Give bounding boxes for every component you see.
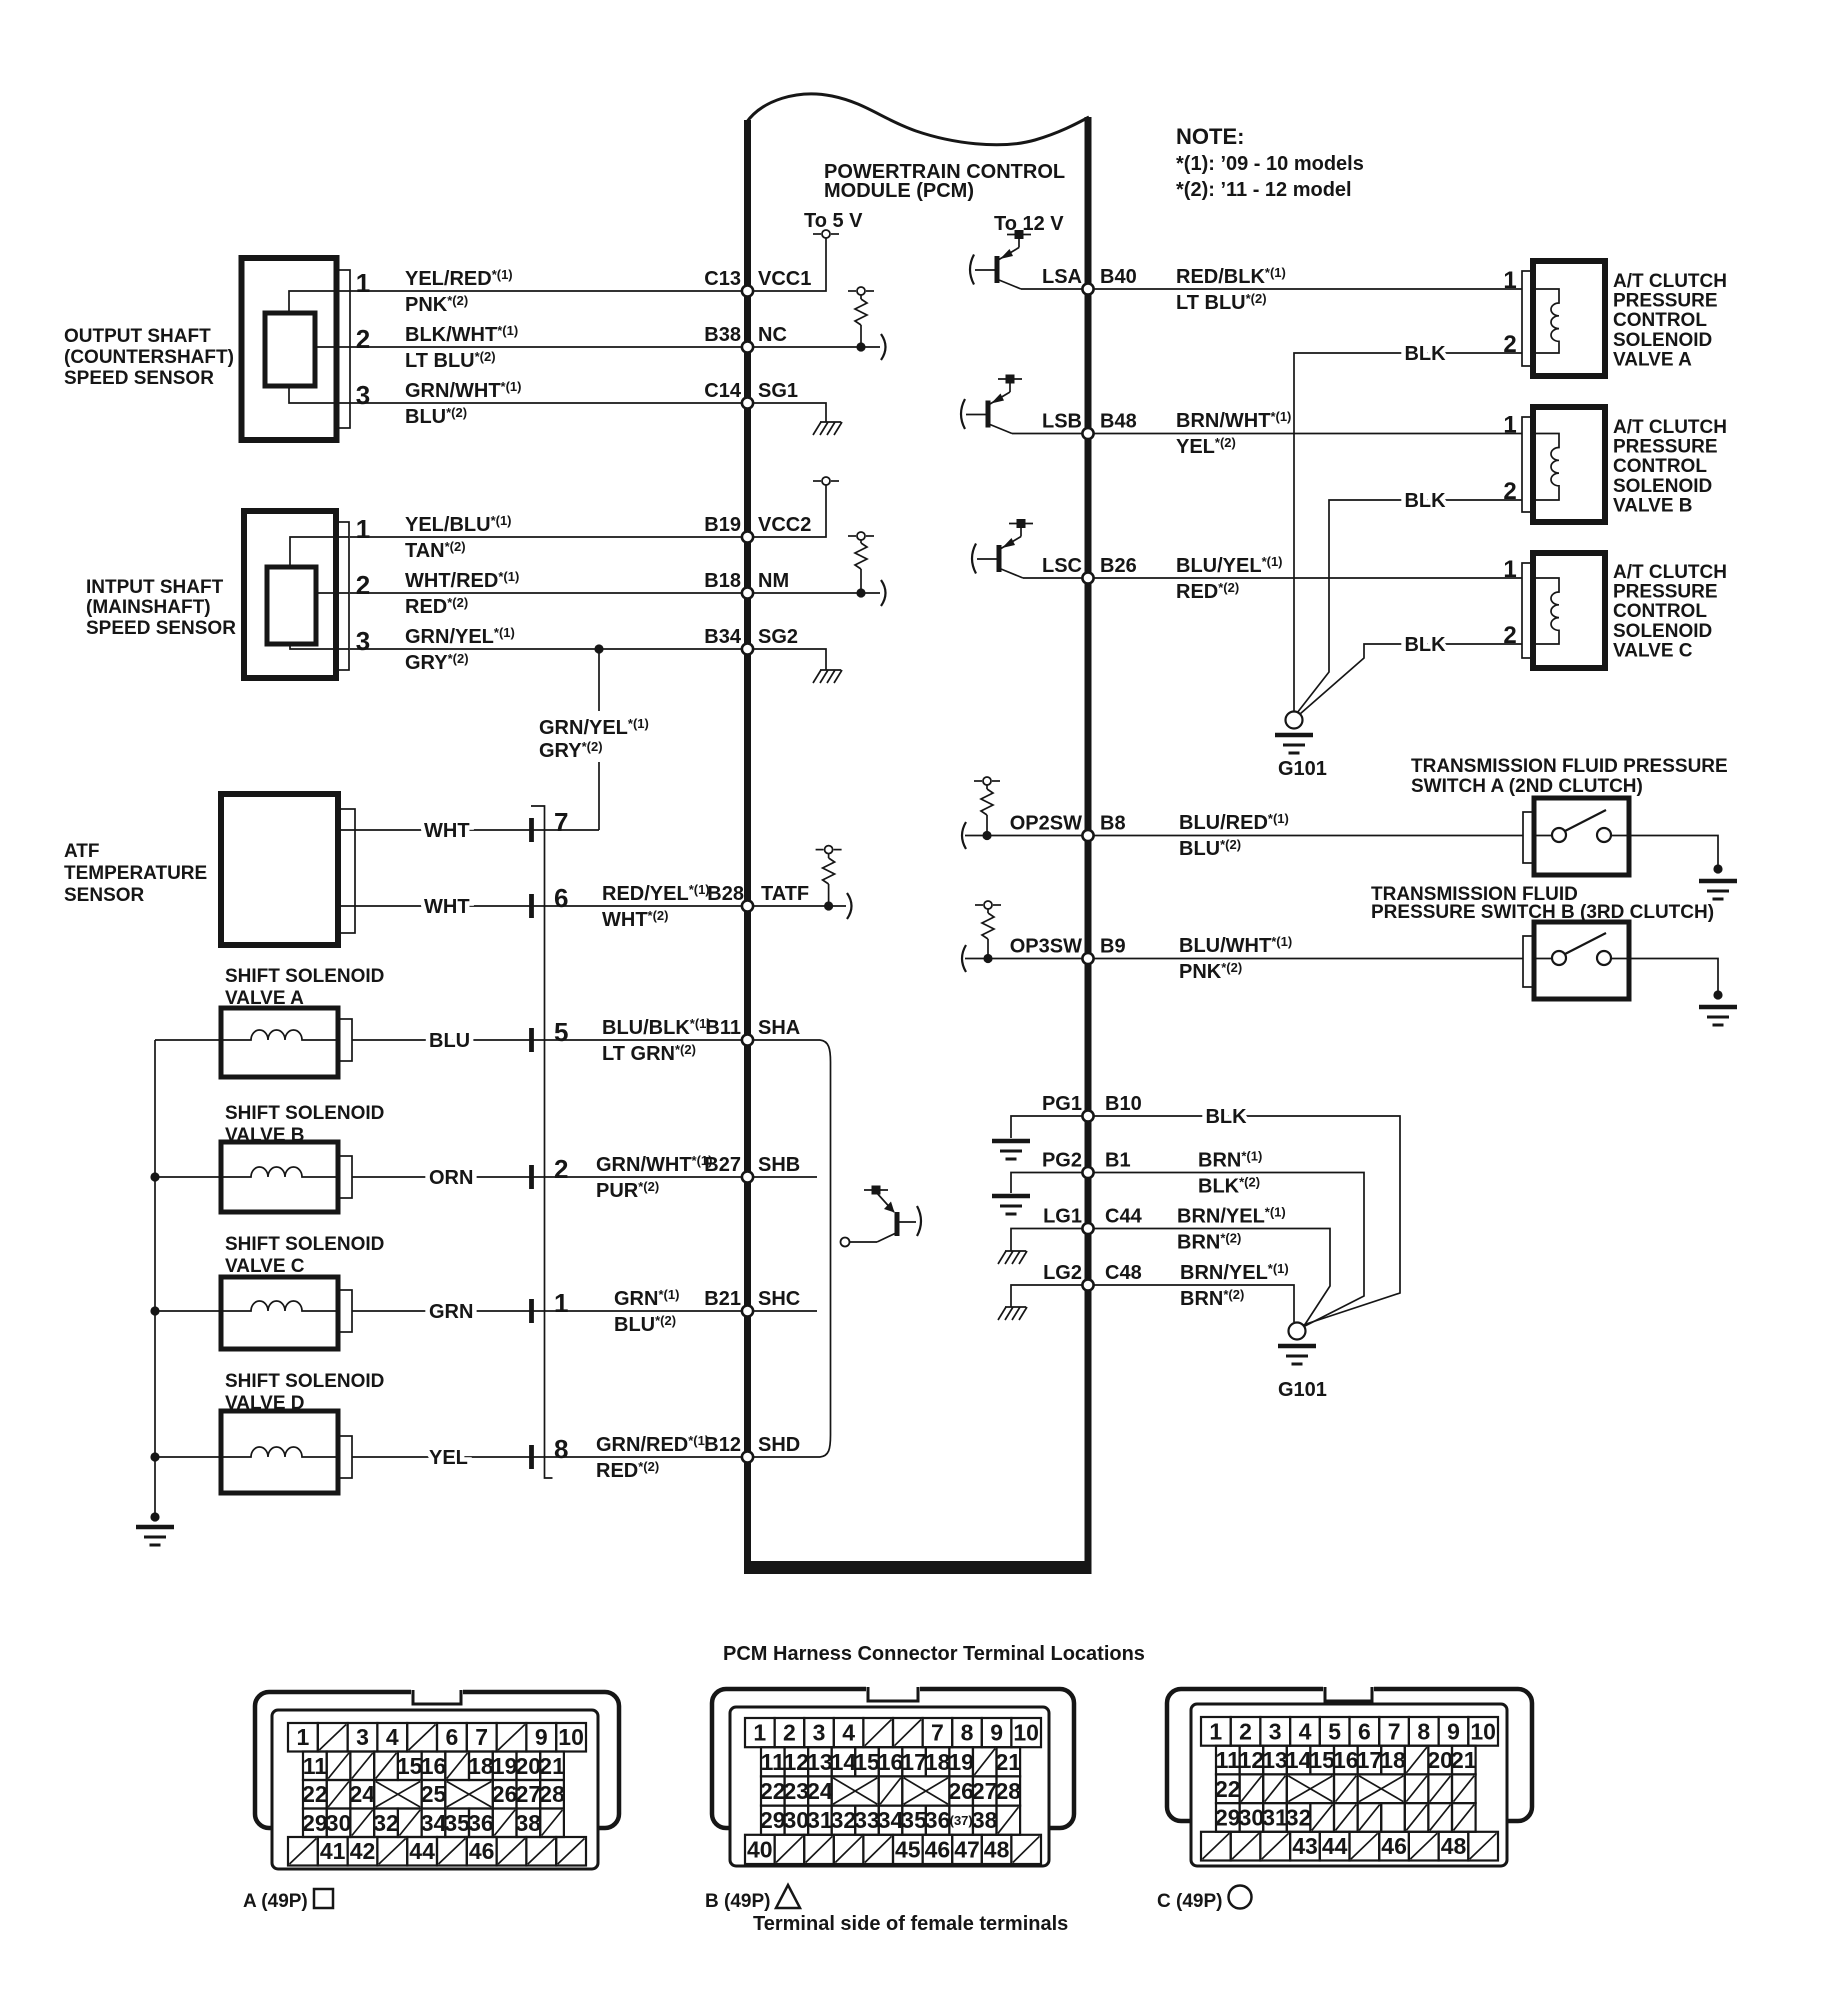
A (49P) cell 44 [407, 1837, 437, 1866]
svg-text:15: 15 [854, 1749, 880, 1775]
terminal B9 [1082, 953, 1093, 964]
A (49P) cell hatch [445, 1752, 469, 1781]
transistor LSA [970, 230, 1031, 289]
A (49P) cell 3 [348, 1723, 378, 1752]
wire valve D common side [155, 1456, 221, 1458]
C (49P) cell 15 [1309, 1746, 1335, 1775]
svg-text:43: 43 [1292, 1833, 1318, 1859]
svg-text:YEL: YEL [429, 1447, 468, 1469]
OP3SW pull-up resistor [975, 901, 1001, 909]
svg-text:SOLENOID: SOLENOID [1613, 330, 1712, 351]
C (49P) cell hatch [1260, 1832, 1290, 1861]
A (49P) cell hatch [540, 1809, 564, 1838]
svg-text:40: 40 [747, 1836, 773, 1862]
svg-text:19: 19 [492, 1753, 518, 1779]
NC pull-up resistor [860, 295, 862, 299]
svg-text:B9: B9 [1100, 936, 1126, 958]
svg-text:1: 1 [1503, 556, 1516, 583]
A (49P) cell 15 [397, 1752, 423, 1781]
C (49P) cell 3 [1260, 1717, 1290, 1746]
svg-text:2: 2 [356, 570, 370, 600]
VCC2 power tap symbol [813, 477, 839, 485]
svg-text:SPEED SENSOR: SPEED SENSOR [86, 618, 236, 639]
B (49P) cell hatch [1011, 1835, 1041, 1864]
C (49P) cell 17 [1357, 1746, 1383, 1775]
terminal tick pin 8 [529, 1445, 534, 1469]
TATF junction [824, 901, 833, 910]
svg-text:2: 2 [1503, 478, 1516, 505]
C (49P) cell 9 [1439, 1717, 1469, 1746]
terminal B38 [742, 341, 753, 352]
A (49P) cell 32 [373, 1809, 399, 1838]
svg-text:47: 47 [954, 1836, 980, 1862]
svg-text:20: 20 [516, 1753, 542, 1779]
svg-text:26: 26 [492, 1781, 518, 1807]
shift solenoid valve C body [221, 1277, 352, 1349]
B (49P) cell 16 [878, 1747, 904, 1776]
svg-text:14: 14 [831, 1749, 857, 1775]
C (49P) cell 5 [1320, 1717, 1350, 1746]
svg-text:13: 13 [1262, 1747, 1288, 1773]
SHA-SHD grouping bracket [820, 1040, 831, 1457]
input shaft (mainshaft) speed sensor label [86, 577, 236, 639]
C (49P) cell 22 [1215, 1774, 1241, 1803]
B (49P) cell 1 [745, 1718, 775, 1747]
A (49P) cell 22 [302, 1780, 328, 1809]
wire valve C common side [155, 1310, 221, 1312]
terminal B10 [1082, 1110, 1093, 1121]
B (49P) cell 48 [982, 1835, 1012, 1864]
wire B38 row [350, 346, 747, 348]
NM junction [856, 588, 865, 597]
svg-text:VALVE B: VALVE B [1613, 495, 1693, 516]
LSA emitter wire [1021, 288, 1088, 290]
svg-text:VALVE A: VALVE A [1613, 349, 1692, 370]
SHB internal wire [751, 1176, 817, 1178]
ground G101 upper [1275, 712, 1313, 754]
A (49P) cell 24 [350, 1780, 376, 1809]
svg-text:MODULE (PCM): MODULE (PCM) [824, 180, 974, 202]
svg-text:2: 2 [554, 1154, 568, 1184]
SG1 internal wire to ground [751, 403, 826, 422]
svg-text:29: 29 [1215, 1804, 1241, 1830]
OP2SW junction [982, 831, 991, 840]
A (49P) cell hatch [437, 1837, 467, 1866]
svg-text:16: 16 [1333, 1747, 1359, 1773]
svg-text:SHA: SHA [758, 1017, 800, 1039]
B (49P) cell 34 [878, 1806, 904, 1835]
C (49P) cell hatch [1358, 1803, 1382, 1832]
terminal tick pin6 [529, 894, 534, 918]
svg-text:3: 3 [356, 626, 370, 656]
svg-text:1: 1 [356, 268, 370, 298]
svg-text:30: 30 [784, 1807, 810, 1833]
svg-text:17: 17 [1357, 1747, 1383, 1773]
A (49P) cell hatch [407, 1723, 437, 1752]
svg-text:7: 7 [1388, 1718, 1401, 1744]
C (49P) cell 4 [1290, 1717, 1320, 1746]
TATF pull-up resistor [828, 854, 830, 858]
svg-text:PRESSURE: PRESSURE [1613, 437, 1718, 458]
svg-text:9: 9 [990, 1720, 1003, 1746]
switch A ground wire [1629, 836, 1718, 867]
terminal B12 [742, 1451, 753, 1462]
wire ATF pin7 (WHT) [338, 829, 599, 831]
wire valve C to connector [352, 1310, 747, 1312]
svg-text:9: 9 [1447, 1718, 1460, 1744]
OP2SW pull-up resistor [974, 777, 1000, 785]
connector strip line [531, 806, 553, 1478]
PG2 ground [992, 1196, 1030, 1214]
svg-text:GRN: GRN [429, 1301, 473, 1323]
svg-text:OUTPUT SHAFT: OUTPUT SHAFT [64, 326, 211, 347]
B (49P) cell 28 [996, 1776, 1022, 1805]
wire B48 to valve B pin1 (BRN/WHT) [1094, 433, 1522, 435]
A (49P) cell hatch [327, 1752, 351, 1781]
C (49P) cell 20 [1427, 1746, 1453, 1775]
svg-text:VALVE C: VALVE C [1613, 640, 1693, 661]
B (49P) cell hatch [973, 1747, 997, 1776]
transistor LSC [972, 519, 1033, 578]
svg-text:18: 18 [1380, 1747, 1406, 1773]
solenoid common bus wire [154, 1040, 156, 1517]
B (49P) cell 46 [923, 1835, 953, 1864]
C (49P) cell hatch [1405, 1774, 1429, 1803]
terminal tick pin 2 [529, 1165, 534, 1189]
wire B18 row [350, 592, 747, 594]
svg-text:3: 3 [356, 1724, 369, 1750]
solenoid coil C [221, 1301, 338, 1311]
svg-text:3: 3 [356, 380, 370, 410]
svg-text:31: 31 [807, 1807, 833, 1833]
svg-text:TATF: TATF [761, 883, 809, 905]
PCM bottom edge [744, 1561, 1092, 1574]
B (49P) cell 4 [834, 1718, 864, 1747]
LG2 ground [998, 1307, 1027, 1320]
svg-text:18: 18 [925, 1749, 951, 1775]
svg-text:B (49P): B (49P) [705, 1891, 770, 1912]
svg-text:SHC: SHC [758, 1288, 800, 1310]
terminal C14 [742, 397, 753, 408]
sensor2 internal wire pin 3 [290, 644, 349, 649]
A (49P) cell hatch [374, 1752, 398, 1781]
svg-text:B34: B34 [704, 626, 742, 648]
C (49P) cell 31 [1262, 1803, 1288, 1832]
C (49P) cell hatch [1428, 1803, 1452, 1832]
svg-text:B10: B10 [1105, 1093, 1142, 1115]
A (49P) cell hatch [288, 1837, 318, 1866]
svg-text:LG2: LG2 [1043, 1262, 1082, 1284]
input shaft speed sensor body [244, 511, 349, 678]
svg-text:SHIFT SOLENOID: SHIFT SOLENOID [225, 1234, 384, 1255]
LG2 internal wire to ground [1011, 1285, 1085, 1307]
switch A ground junction [1713, 864, 1722, 873]
switch B title [1371, 884, 1714, 923]
NC junction [856, 342, 865, 351]
svg-text:36: 36 [468, 1810, 494, 1836]
A (49P) cell cross [445, 1780, 493, 1809]
TATF internal wire [751, 905, 846, 907]
svg-text:B48: B48 [1100, 411, 1137, 433]
B (49P) cell 13 [807, 1747, 833, 1776]
svg-text:1: 1 [554, 1288, 568, 1318]
svg-text:PRESSURE: PRESSURE [1613, 291, 1718, 312]
wire B8 to switch A (BLU/RED) [1094, 835, 1523, 837]
switch A title [1411, 756, 1728, 797]
BLK wire valve C pin2 [1300, 644, 1522, 714]
svg-text:16: 16 [878, 1749, 904, 1775]
svg-text:SWITCH A (2ND CLUTCH): SWITCH A (2ND CLUTCH) [1411, 776, 1643, 797]
A (49P) cell hatch [493, 1809, 517, 1838]
C (49P) cell hatch [1350, 1832, 1380, 1861]
PCM wavy top edge [746, 94, 1089, 145]
svg-text:21: 21 [1451, 1747, 1477, 1773]
svg-text:BLK: BLK [1404, 490, 1446, 512]
svg-text:B40: B40 [1100, 266, 1137, 288]
svg-text:20: 20 [1427, 1747, 1453, 1773]
svg-text:SHIFT SOLENOID: SHIFT SOLENOID [225, 966, 384, 987]
sensor2 internal wire pin 1 [290, 537, 349, 567]
SG1 ground [813, 422, 842, 435]
A (49P) cell 36 [468, 1809, 494, 1838]
C (49P) cell cross [1358, 1774, 1405, 1803]
solenoid common ground [136, 1527, 174, 1545]
svg-text:30: 30 [326, 1810, 352, 1836]
C (49P) cell 7 [1379, 1717, 1409, 1746]
svg-text:B8: B8 [1100, 813, 1126, 835]
C (49P) cell 32 [1286, 1803, 1312, 1832]
B (49P) cell hatch [834, 1835, 864, 1864]
OP2SW continuation bracket [962, 822, 966, 849]
wire B26 to valve C pin1 (BLU/YEL) [1094, 577, 1522, 579]
svg-text:1: 1 [1209, 1718, 1222, 1744]
LSC emitter wire [1023, 577, 1088, 579]
svg-text:11: 11 [303, 1753, 328, 1779]
C (49P) cell hatch [1452, 1774, 1476, 1803]
svg-text:CONTROL: CONTROL [1613, 456, 1707, 477]
svg-text:VALVE C: VALVE C [225, 1256, 305, 1277]
svg-text:LSC: LSC [1042, 555, 1082, 577]
B (49P) cell 2 [775, 1718, 805, 1747]
svg-text:VCC1: VCC1 [758, 268, 811, 290]
terminal B8 [1082, 830, 1093, 841]
switch B contacts [1534, 933, 1629, 965]
svg-text:17: 17 [901, 1749, 927, 1775]
svg-text:21: 21 [539, 1753, 565, 1779]
sensor2 internal wire pin 2 [316, 592, 349, 594]
A (49P) cell hatch [377, 1837, 407, 1866]
shift solenoid valve B label [225, 1103, 384, 1146]
NM pull-up resistor [860, 540, 862, 543]
svg-text:PCM Harness Connector Terminal: PCM Harness Connector Terminal Locations [723, 1643, 1145, 1665]
switch B ground [1699, 1007, 1737, 1025]
C (49P) cell blank [1381, 1803, 1405, 1832]
switch B ground wire [1629, 959, 1718, 993]
A (49P) cell 21 [539, 1752, 565, 1781]
junction on SG2 wire [594, 644, 603, 653]
terminal C13 [742, 285, 753, 296]
svg-text:B26: B26 [1100, 555, 1137, 577]
A (49P) cell cross [374, 1780, 422, 1809]
A (49P) cell hatch [556, 1837, 586, 1866]
switch A ground [1699, 881, 1737, 899]
SHA internal wire [751, 1039, 820, 1041]
B (49P) cell 15 [854, 1747, 880, 1776]
wire C13 row [350, 290, 747, 292]
B (49P) cell hatch [775, 1835, 805, 1864]
svg-text:WHT: WHT [424, 820, 470, 842]
NM pull-up resistor top tap [848, 532, 874, 540]
B (49P) cell 35 [901, 1806, 927, 1835]
A (49P) cell 35 [444, 1809, 470, 1838]
svg-text:2: 2 [783, 1720, 796, 1746]
A (49P) cell 10 [556, 1723, 586, 1752]
C (49P) cell hatch [1452, 1803, 1476, 1832]
BLK wire valve B pin2 [1297, 500, 1522, 713]
svg-text:11: 11 [761, 1749, 786, 1775]
NM internal wire [751, 592, 880, 594]
C (49P) cell 11 [1216, 1746, 1241, 1775]
valve A coil [1533, 289, 1559, 353]
PG1 internal wire to ground [1011, 1116, 1085, 1138]
C (49P) cell 44 [1320, 1832, 1350, 1861]
junction valve B common [150, 1172, 159, 1181]
shift solenoid valve A label [225, 966, 384, 1009]
B (49P) cell 11 [761, 1747, 786, 1776]
svg-text:4: 4 [1299, 1718, 1312, 1744]
shift solenoid valve D body [221, 1411, 352, 1493]
svg-text:C14: C14 [704, 380, 742, 402]
wire valve A common side [155, 1039, 221, 1041]
C (49P) cell 14 [1286, 1746, 1312, 1775]
A (49P) cell 26 [492, 1780, 518, 1809]
A (49P) cell 20 [516, 1752, 542, 1781]
svg-text:1: 1 [1503, 267, 1516, 294]
svg-text:22: 22 [1215, 1776, 1241, 1802]
A (49P) cell 25 [421, 1780, 447, 1809]
driver transistor Q1 [841, 1186, 922, 1247]
svg-text:22: 22 [760, 1778, 786, 1804]
svg-text:1: 1 [753, 1720, 766, 1746]
C (49P) cell hatch [1334, 1774, 1358, 1803]
A (49P) cell hatch [398, 1809, 422, 1838]
svg-text:19: 19 [948, 1749, 974, 1775]
terminal tick pin7 [529, 818, 534, 842]
svg-text:15: 15 [1309, 1747, 1335, 1773]
A (49P) cell hatch [497, 1837, 527, 1866]
C (49P) cell hatch [1428, 1774, 1452, 1803]
C (49P) cell 2 [1231, 1717, 1261, 1746]
solenoid coil B [221, 1167, 338, 1177]
svg-text:SHIFT SOLENOID: SHIFT SOLENOID [225, 1371, 384, 1392]
svg-text:6: 6 [554, 883, 568, 913]
svg-text:VCC2: VCC2 [758, 514, 811, 536]
svg-text:A/T CLUTCH: A/T CLUTCH [1613, 417, 1727, 438]
B (49P) cell 9 [982, 1718, 1012, 1747]
junction valve D common [150, 1452, 159, 1461]
svg-text:1: 1 [297, 1724, 310, 1750]
svg-text:B38: B38 [704, 324, 741, 346]
B (49P) cell 24 [807, 1776, 833, 1805]
shift solenoid valve A body [221, 1008, 352, 1077]
wire B10 BLK to G101 [1094, 1116, 1400, 1325]
A (49P) cell 46 [467, 1837, 497, 1866]
svg-text:SHIFT SOLENOID: SHIFT SOLENOID [225, 1103, 384, 1124]
svg-text:SHB: SHB [758, 1154, 800, 1176]
svg-text:32: 32 [373, 1810, 399, 1836]
B (49P) cell cross [832, 1776, 879, 1805]
wire valve B common side [155, 1176, 221, 1178]
svg-text:C48: C48 [1105, 1262, 1142, 1284]
B (49P) cell hatch [893, 1718, 923, 1747]
terminal B1 [1082, 1167, 1093, 1178]
svg-text:34: 34 [421, 1810, 447, 1836]
wire B19 row [350, 536, 747, 538]
C (49P) cell 16 [1333, 1746, 1359, 1775]
C (49P) cell 21 [1451, 1746, 1477, 1775]
NC pull-up resistor top tap [848, 287, 874, 295]
svg-text:BLU: BLU [429, 1030, 470, 1052]
A (49P) cell 29 [302, 1809, 328, 1838]
svg-text:45: 45 [895, 1836, 921, 1862]
terminal tick pin 5 [529, 1028, 534, 1052]
svg-text:NC: NC [758, 324, 787, 346]
connector A symbol (square) [314, 1889, 333, 1908]
C (49P) cell hatch [1405, 1803, 1429, 1832]
svg-text:4: 4 [842, 1720, 855, 1746]
C (49P) cell hatch [1263, 1774, 1287, 1803]
sensor internal wire pin 1 [289, 291, 350, 313]
svg-text:C (49P): C (49P) [1157, 1891, 1222, 1912]
PG1 ground [992, 1141, 1030, 1159]
svg-text:ORN: ORN [429, 1167, 473, 1189]
svg-text:15: 15 [397, 1753, 423, 1779]
svg-text:SG1: SG1 [758, 380, 798, 402]
A (49P) cell hatch [350, 1752, 374, 1781]
svg-text:38: 38 [516, 1810, 542, 1836]
wire B1 BRN/BLK to G101 [1094, 1173, 1364, 1328]
svg-text:B12: B12 [704, 1434, 741, 1456]
svg-text:(COUNTERSHAFT): (COUNTERSHAFT) [64, 347, 234, 368]
connector C symbol (circle) [1229, 1886, 1252, 1909]
svg-text:To 5 V: To 5 V [804, 210, 863, 232]
C (49P) cell hatch [1334, 1803, 1358, 1832]
svg-text:10: 10 [1470, 1718, 1496, 1744]
terminal B11 [742, 1034, 753, 1045]
svg-text:36: 36 [925, 1807, 951, 1833]
B (49P) cell 21 [996, 1747, 1022, 1776]
B (49P) cell 38 [972, 1806, 998, 1835]
svg-text:B28: B28 [707, 883, 744, 905]
terminal C44 [1082, 1223, 1093, 1234]
A/T clutch pressure control solenoid valve A body [1522, 261, 1605, 376]
A (49P) cell 11 [303, 1752, 328, 1781]
B (49P) cell 22 [760, 1776, 786, 1805]
B (49P) cell 30 [784, 1806, 810, 1835]
svg-text:46: 46 [1381, 1833, 1407, 1859]
B (49P) cell 17 [901, 1747, 927, 1776]
svg-text:BLK: BLK [1404, 343, 1446, 365]
SHC internal wire [751, 1310, 817, 1312]
A (49P) cell 42 [348, 1837, 378, 1866]
svg-text:10: 10 [1013, 1720, 1039, 1746]
VCC1 internal wire to 5V tap [751, 238, 826, 291]
TATF pull-up resistor tap [816, 846, 842, 854]
connector shell B (49P) [712, 1685, 1074, 1867]
svg-text:NOTE:: NOTE: [1176, 124, 1244, 149]
svg-text:10: 10 [558, 1724, 584, 1750]
SG2 internal wire to ground [751, 649, 826, 670]
